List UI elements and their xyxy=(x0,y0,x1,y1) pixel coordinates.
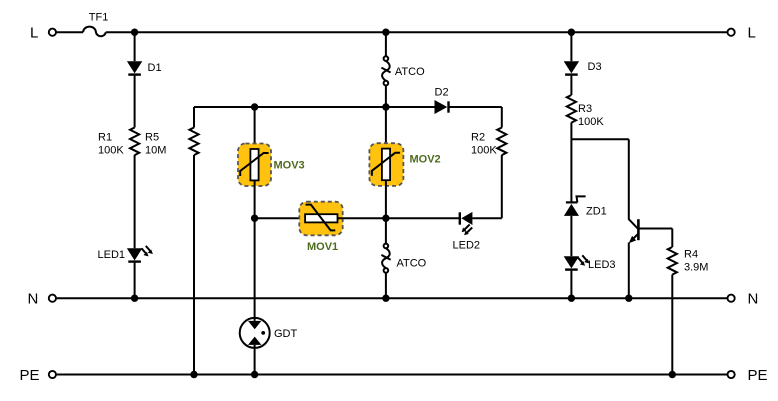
junction PE rail x8 xyxy=(669,371,676,378)
wire branch x4: L rail to ATCO top xyxy=(385,32,387,56)
wire ATCO bottom to N rail xyxy=(385,273,387,299)
svg-text:MOV1: MOV1 xyxy=(307,241,338,253)
resistor R1 xyxy=(130,128,139,156)
svg-text:R3: R3 xyxy=(578,103,592,115)
svg-text:R4: R4 xyxy=(684,249,698,261)
junction N rail x7 xyxy=(625,295,632,302)
inductor ATCO top xyxy=(381,56,390,85)
wire R4 corner down xyxy=(671,229,673,248)
svg-text:LED3: LED3 xyxy=(588,259,616,271)
svg-text:100K: 100K xyxy=(578,116,604,128)
resistor R5 xyxy=(189,128,198,156)
resistor R4 xyxy=(668,247,677,275)
wire branch x2: node A down to R5 xyxy=(193,107,195,128)
wire branch x5: node A corner down to R2 xyxy=(501,107,503,128)
resistor R3 xyxy=(567,95,576,123)
resistor R2 xyxy=(497,128,506,156)
wire LED1 to N rail xyxy=(134,263,136,299)
wire branch x6: L rail to D3 xyxy=(570,32,572,61)
GDT tube xyxy=(240,318,270,348)
inductor ATCO bottom xyxy=(381,244,390,273)
svg-text:R5: R5 xyxy=(145,132,159,144)
svg-text:3.9M: 3.9M xyxy=(684,262,708,274)
junction PE rail x3 xyxy=(251,371,258,378)
LED LED2 xyxy=(460,212,473,235)
wire R2 to MOV1 line xyxy=(501,155,503,218)
wire PE rail xyxy=(56,374,727,376)
svg-text:100K: 100K xyxy=(471,145,497,157)
svg-text:R1: R1 xyxy=(98,132,112,144)
svg-text:LED2: LED2 xyxy=(453,240,481,252)
varistor MOV1 xyxy=(299,202,342,236)
varistor MOV3 xyxy=(238,144,271,187)
junction MOV1 line x3 xyxy=(251,215,258,222)
junction L rail x1 xyxy=(131,29,138,36)
wire tee: R3 node to transistor collector xyxy=(571,138,628,140)
diode D2 xyxy=(435,100,449,114)
wire MOV2 to MOV1 line xyxy=(385,180,387,218)
junction N rail x4 xyxy=(382,295,389,302)
wire R1 to LED1 xyxy=(134,155,136,248)
junction N rail x1 xyxy=(131,295,138,302)
wire node line A horizontal (left part) xyxy=(194,106,435,108)
wire base to R4 xyxy=(638,228,672,230)
fuse TF1 xyxy=(83,27,106,37)
svg-text:LED1: LED1 xyxy=(98,249,126,261)
svg-text:TF1: TF1 xyxy=(89,12,109,24)
svg-text:PE: PE xyxy=(20,367,40,384)
svg-text:R2: R2 xyxy=(471,132,485,144)
wire L rail main segment xyxy=(106,31,728,33)
diode D1 xyxy=(127,61,142,74)
wire D1 to R1 xyxy=(134,76,136,128)
junction node A x4 xyxy=(382,103,389,110)
svg-text:N: N xyxy=(28,290,39,307)
wire N rail xyxy=(56,297,727,299)
junction L rail x6 xyxy=(568,29,575,36)
wire node line A horizontal (right part after D2) xyxy=(449,106,502,108)
wire branch x3: node A to MOV3 xyxy=(254,107,256,149)
junction N rail x6 xyxy=(568,295,575,302)
svg-text:ATCO: ATCO xyxy=(397,258,427,270)
svg-text:D3: D3 xyxy=(588,61,602,73)
wire MOV1 line to ATCO bottom xyxy=(385,218,387,243)
transistor Q1 xyxy=(629,139,639,298)
terminal PE left xyxy=(49,371,56,378)
wire branch x1: L rail to D1 xyxy=(134,32,136,61)
wire GDT to PE rail xyxy=(254,345,256,375)
wire R5 to PE rail xyxy=(193,155,195,375)
wire ATCO top to MOV2 xyxy=(385,85,387,148)
wire MOV1 line: x3 to MOV1 body xyxy=(255,217,306,219)
svg-text:D2: D2 xyxy=(435,87,449,99)
terminal N right xyxy=(728,295,735,302)
terminal L right xyxy=(728,29,735,36)
wire LED3 to N rail xyxy=(570,271,572,299)
varistor MOV2 xyxy=(369,143,403,186)
svg-text:ZD1: ZD1 xyxy=(586,206,607,218)
svg-text:N: N xyxy=(748,290,759,307)
wire R3 to ZD1 (passes tee) xyxy=(570,123,572,203)
svg-text:MOV3: MOV3 xyxy=(274,160,305,172)
svg-text:L: L xyxy=(30,24,38,41)
LED LED3 xyxy=(564,255,590,269)
junction node A x3 xyxy=(251,103,258,110)
svg-text:L: L xyxy=(748,24,756,41)
junction L rail x4 xyxy=(382,29,389,36)
terminal PE right xyxy=(728,371,735,378)
terminal N left xyxy=(49,295,56,302)
terminal L left xyxy=(49,29,56,36)
wire MOV1 line: LED2 to R2 corner xyxy=(472,217,501,219)
junction MOV1 line x4 xyxy=(382,215,389,222)
wire MOV1 line: MOV1 body to LED2 xyxy=(338,217,460,219)
svg-text:PE: PE xyxy=(748,367,768,384)
svg-text:MOV2: MOV2 xyxy=(410,154,441,166)
wire L rail left segment xyxy=(56,31,83,33)
svg-text:GDT: GDT xyxy=(274,328,298,340)
diode D3 xyxy=(564,61,579,74)
zener ZD1 xyxy=(564,196,586,216)
wire R4 to PE rail xyxy=(671,275,673,375)
svg-text:D1: D1 xyxy=(148,62,162,74)
wire MOV3 to MOV1 line xyxy=(254,181,256,218)
wire MOV1-line x3 down to GDT xyxy=(254,218,256,321)
wire ZD1 to LED3 xyxy=(570,216,572,256)
wire D3 to R3 xyxy=(570,76,572,95)
svg-text:10M: 10M xyxy=(145,145,166,157)
svg-text:100K: 100K xyxy=(98,145,124,157)
svg-text:ATCO: ATCO xyxy=(395,66,425,78)
junction PE rail x2 xyxy=(190,371,197,378)
LED LED1 xyxy=(127,246,153,262)
